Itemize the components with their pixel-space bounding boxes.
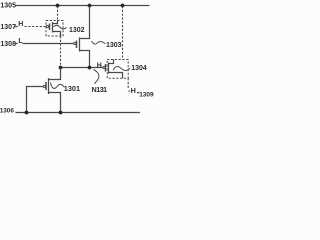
label leader squiggle 1302 (54, 25, 67, 29)
label leader squiggle 1303 (92, 41, 106, 44)
transistor Q1304 drain lead (109, 60, 114, 64)
wire dashed 1304 source drop (127, 78, 129, 89)
transistor Q1302 dashed enclosure (46, 21, 63, 37)
svg-text:H: H (97, 62, 102, 69)
node junction dot G (1301 source tie) (59, 111, 63, 115)
wire dashed 1302 source drop to node N131 (60, 36, 62, 66)
transistor Q1304 gate bar (105, 64, 107, 72)
svg-text:1304: 1304 (131, 65, 147, 72)
svg-text:1302: 1302 (69, 27, 85, 34)
transistor Q1301 channel bar (48, 78, 50, 94)
transistor Q1301 gate bar (45, 82, 47, 90)
node junction dot A (rail to 1302) (56, 4, 60, 8)
wire dashed 1307 to gate of 1302 (25, 26, 47, 28)
wire dashed drop rail to 1304 box (122, 6, 124, 60)
transistor Q1302 source lead (53, 32, 61, 37)
label leader squiggle 1304 (113, 66, 130, 70)
transistor Q1303 channel bar (79, 38, 81, 52)
node junction dot D (N131 left) (59, 66, 63, 70)
transistor Q1304 source lead (109, 73, 123, 79)
wire node N131 horizontal (61, 67, 104, 69)
transistor Q1302 drain lead (53, 21, 58, 24)
tie mark dashed to H (1309) (128, 90, 130, 92)
wire bottom rail 1306 (16, 112, 141, 114)
transistor Q1303 gate bar (76, 41, 78, 49)
svg-text:1309: 1309 (139, 91, 154, 98)
transistor Q1304 gate bubble (103, 66, 105, 68)
tie mark 1309 (137, 92, 140, 94)
svg-text:1307: 1307 (0, 24, 16, 31)
transistor Q1302 gate bubble (46, 25, 48, 27)
transistor Q1302 channel bar (52, 22, 54, 33)
transistor Q1303 gate bubble (74, 42, 76, 44)
tie mark 1308 (15, 43, 18, 45)
label leader squiggle 1301 (51, 83, 65, 89)
transistor Q1302 gate bar (49, 24, 51, 31)
wire Q1301 gate to bottom rail (27, 87, 44, 113)
svg-text:H: H (18, 21, 23, 28)
wire dashed drop rail to 1302 box (57, 6, 59, 21)
wire 1308 to gate of 1303 (23, 43, 74, 45)
label leader curve N131 (94, 70, 99, 85)
svg-text:1305: 1305 (0, 2, 16, 9)
transistor Q1303 drain lead (80, 6, 90, 39)
tie mark 1307 (15, 26, 18, 28)
svg-text:1306: 1306 (0, 107, 14, 114)
svg-text:H: H (131, 86, 136, 95)
transistor Q1303 source lead (80, 51, 90, 68)
transistor Q1304 dashed enclosure (107, 60, 128, 79)
node junction dot F (1301 gate tie) (25, 111, 29, 115)
transistor Q1301 gate bubble (43, 85, 45, 87)
transistor Q1301 drain lead from node (49, 68, 61, 80)
svg-text:1301: 1301 (64, 84, 80, 93)
svg-text:N131: N131 (92, 85, 108, 94)
node junction dot C (rail to 1304) (121, 4, 125, 8)
svg-text:1308: 1308 (0, 41, 16, 48)
svg-text:1303: 1303 (106, 42, 122, 49)
transistor Q1304 channel bar (108, 63, 110, 74)
node junction dot B (rail to 1303) (88, 4, 92, 8)
transistor Q1301 source lead (49, 93, 61, 113)
wire top rail 1305 (16, 5, 150, 7)
node junction dot E (N131 right) (88, 66, 92, 70)
